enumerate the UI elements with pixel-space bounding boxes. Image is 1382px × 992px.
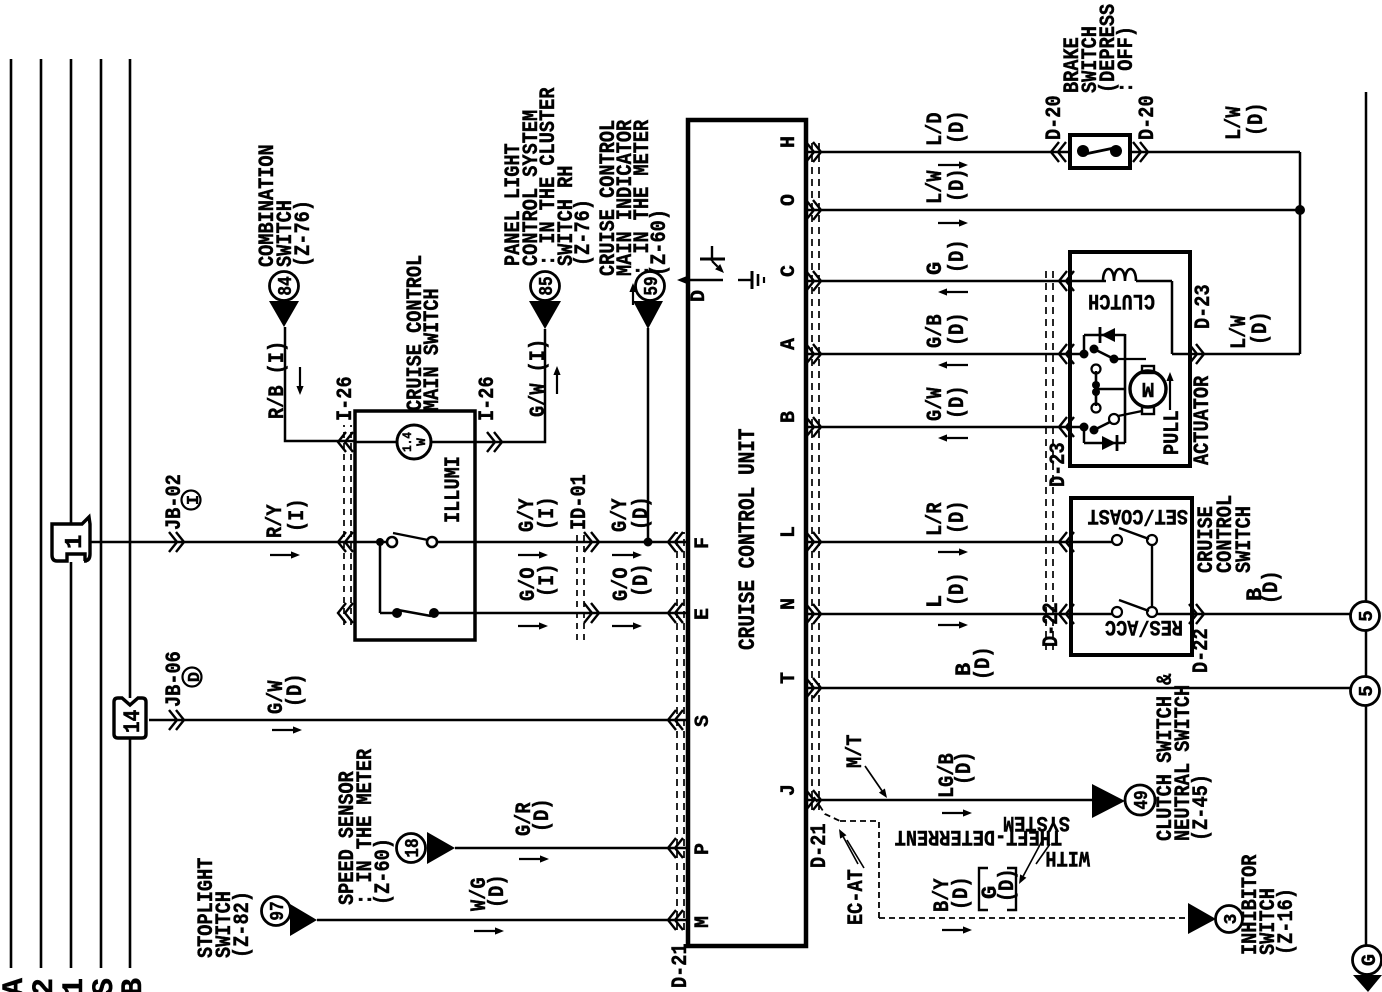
svg-text:PULL: PULL [1160, 410, 1185, 455]
svg-text:5: 5 [1356, 610, 1378, 621]
svg-text:ACTUATOR: ACTUATOR [1190, 375, 1215, 465]
svg-text:M: M [1142, 376, 1155, 399]
svg-text:(I): (I) [535, 497, 560, 531]
svg-text:D-23: D-23 [1191, 284, 1216, 329]
svg-text:D-21: D-21 [668, 943, 693, 988]
svg-text:(D): (D) [945, 386, 970, 420]
svg-text:D: D [186, 672, 205, 682]
svg-text:(D): (D) [1244, 103, 1269, 137]
svg-text:SYSTEM: SYSTEM [1003, 810, 1070, 835]
svg-text:D-20: D-20 [1135, 95, 1160, 140]
svg-text:(Z-60): (Z-60) [371, 838, 396, 905]
svg-text:(D): (D) [952, 752, 977, 786]
svg-text:W: W [414, 438, 429, 446]
svg-text:G: G [1359, 954, 1382, 966]
svg-text:SET/COAST: SET/COAST [1088, 503, 1188, 528]
svg-text:SWITCH: SWITCH [1232, 506, 1257, 573]
svg-text:D-22: D-22 [1189, 628, 1214, 673]
svg-text:1.4: 1.4 [400, 432, 415, 452]
svg-text:(D): (D) [949, 877, 974, 911]
svg-text:F: F [692, 537, 715, 549]
svg-text:(D): (D) [945, 313, 970, 347]
svg-text:(D): (D) [629, 564, 654, 598]
svg-text:49: 49 [1131, 790, 1153, 809]
svg-text:T: T [778, 672, 801, 684]
svg-text:(D): (D) [945, 111, 970, 145]
svg-text:ID-01: ID-01 [567, 474, 592, 530]
svg-text:(D): (D) [945, 240, 970, 274]
svg-text:(D): (D) [971, 647, 996, 681]
svg-text:97: 97 [267, 901, 289, 920]
svg-text:I-26: I-26 [475, 376, 500, 421]
svg-text:2: 2 [28, 978, 62, 992]
svg-text:EC-AT: EC-AT [844, 869, 869, 925]
svg-text:M/T: M/T [843, 735, 868, 769]
svg-text:1: 1 [58, 978, 92, 992]
svg-text:(Z-76): (Z-76) [571, 199, 596, 266]
svg-text:N: N [778, 598, 801, 610]
svg-text:B: B [778, 411, 801, 423]
svg-text:R/B (I): R/B (I) [265, 341, 290, 419]
svg-text:: OFF): : OFF) [1114, 26, 1139, 93]
svg-text:D: D [688, 290, 711, 302]
svg-text:ILLUMI: ILLUMI [441, 456, 466, 523]
svg-text:(D): (D) [485, 875, 510, 909]
svg-text:JB-02: JB-02 [162, 474, 187, 530]
svg-text:(D): (D) [945, 169, 970, 203]
svg-text:G/W (I): G/W (I) [526, 339, 551, 417]
svg-text:(Z-16): (Z-16) [1274, 888, 1299, 955]
svg-text:(D): (D) [283, 674, 308, 708]
svg-text:E: E [692, 608, 715, 620]
svg-text:H: H [778, 136, 801, 148]
svg-text:D-23: D-23 [1046, 442, 1071, 487]
svg-text:I-26: I-26 [333, 376, 358, 421]
svg-text:CRUISE CONTROL UNIT: CRUISE CONTROL UNIT [735, 428, 761, 650]
svg-text:B: B [117, 978, 151, 992]
svg-text:(Z-45): (Z-45) [1189, 774, 1214, 841]
svg-text:5: 5 [1356, 685, 1378, 696]
svg-text:J: J [778, 784, 801, 796]
svg-text:(Z-76): (Z-76) [291, 200, 316, 267]
svg-text:O: O [778, 194, 801, 206]
svg-text:84: 84 [275, 276, 297, 295]
svg-text:C: C [778, 265, 801, 277]
svg-text:S: S [692, 715, 715, 727]
svg-text:(D): (D) [945, 501, 970, 535]
svg-text:(D): (D) [629, 497, 654, 531]
svg-text:A: A [778, 338, 801, 350]
svg-text:59: 59 [641, 276, 663, 295]
svg-text:(Z-82): (Z-82) [230, 891, 255, 958]
svg-text:(D): (D) [945, 573, 970, 607]
svg-text:I: I [185, 495, 204, 505]
svg-text:MAIN SWITCH: MAIN SWITCH [420, 288, 445, 411]
svg-text:(Z-60): (Z-60) [647, 209, 672, 276]
svg-text:P: P [692, 843, 715, 855]
svg-text:D-22: D-22 [1039, 602, 1064, 647]
svg-text:L: L [778, 526, 801, 538]
svg-text:D-21: D-21 [807, 823, 832, 868]
svg-text:(I): (I) [535, 564, 560, 598]
svg-text:(D): (D) [995, 869, 1020, 903]
svg-text:(D): (D) [530, 799, 555, 833]
svg-text:(D): (D) [1248, 312, 1273, 346]
svg-text:(D): (D) [1259, 571, 1284, 605]
svg-text:1: 1 [62, 535, 89, 549]
svg-text:85: 85 [536, 276, 558, 295]
svg-text:CLUTCH: CLUTCH [1088, 288, 1155, 313]
svg-text:M: M [692, 916, 715, 928]
svg-text:18: 18 [402, 838, 424, 857]
svg-text:(I): (I) [285, 499, 310, 533]
svg-text:D-20: D-20 [1042, 95, 1067, 140]
svg-text:14: 14 [120, 710, 146, 733]
